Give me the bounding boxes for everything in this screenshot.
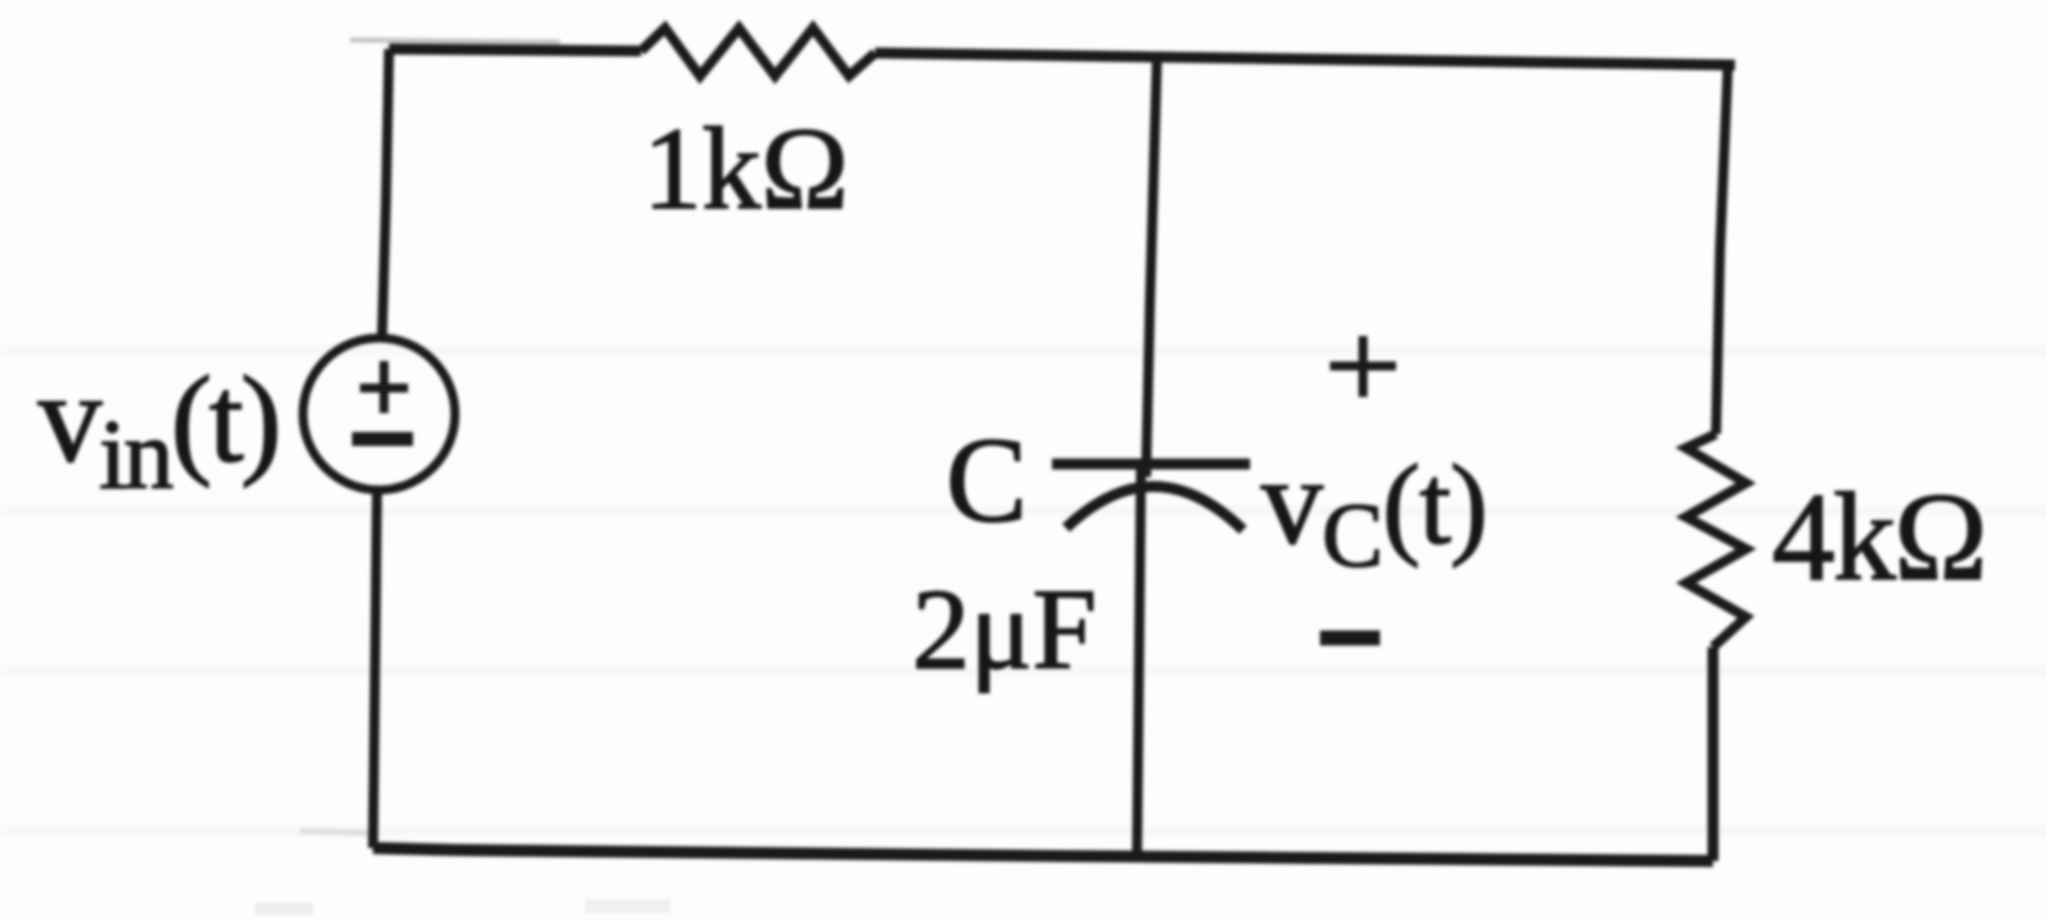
wire: top-left horizontal (source top node to R1 left lead) <box>389 49 641 51</box>
resistor R1 zigzag body <box>641 28 875 76</box>
wire: right vertical lower (R2 to bottom-right corner) <box>1708 647 1719 861</box>
svg-text:C: C <box>946 413 1027 548</box>
wire: bottom horizontal <box>373 848 1713 861</box>
svg-text:2μF: 2μF <box>912 566 1097 694</box>
svg-text:vin(t): vin(t) <box>38 347 279 510</box>
wire: right vertical upper (top-right corner to R2) <box>1716 63 1728 434</box>
voltage source plus sign <box>360 361 408 413</box>
voltage source minus bar <box>352 432 413 446</box>
svg-text:1kΩ: 1kΩ <box>643 103 849 234</box>
wire: left vertical (top-left corner down to source) <box>382 49 389 338</box>
voltage source Vin circle <box>303 338 455 490</box>
svg-text:vC(t): vC(t) <box>1261 433 1487 586</box>
capacitor C top plate <box>1052 459 1250 470</box>
label vC(t) plus polarity <box>1330 336 1396 397</box>
resistor R2 zigzag body <box>1686 434 1746 647</box>
wire: source bottom lead down to bottom-left corner <box>373 491 377 848</box>
svg-text:4kΩ: 4kΩ <box>1772 468 1986 607</box>
wire: middle vertical lower (capacitor to bottom wire) <box>1137 468 1141 858</box>
wire: top horizontal R1 to top-right corner <box>875 53 1735 65</box>
label vC(t) minus polarity <box>1320 631 1380 646</box>
capacitor C bottom curved plate <box>1066 486 1243 530</box>
wire: middle vertical upper (top node down to capacitor) <box>1146 57 1157 477</box>
